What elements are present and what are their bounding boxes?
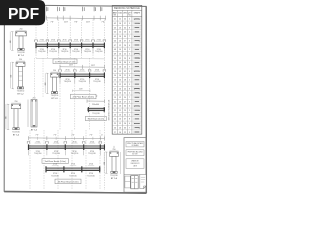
svg-text:16: 16 [119,132,121,134]
svg-text:T10@150: T10@150 [93,81,100,83]
beam A (1st floor): support dividers through label rows [35,48,37,53]
dimension tick [105,16,107,21]
beam caption box [55,179,81,184]
top dimension line [46,17,106,20]
svg-text:25: 25 [124,67,126,69]
section S5: outer dimension line [103,152,105,173]
svg-text:250: 250 [15,101,18,103]
svg-text:27: 27 [124,101,126,103]
title block: box 1 [126,142,144,147]
svg-text:3: 3 [129,132,130,134]
svg-text:06: 06 [114,40,116,42]
svg-text:8: 8 [129,58,130,60]
section S4a: bottom bars [13,128,19,130]
svg-text:12: 12 [119,123,121,125]
svg-text:11: 11 [114,62,116,64]
svg-text:7'5": 7'5" [53,135,57,137]
beam D support tick [99,166,101,172]
projection line (dashed, sections) [34,58,36,97]
svg-text:T10@150: T10@150 [52,153,59,155]
section S4a: corner bar marks [12,105,13,106]
title block: bottom-left cell [125,176,130,188]
svg-text:5: 5 [129,114,130,116]
grid line (dashed, upper) [58,20,60,59]
svg-text:8: 8 [129,27,130,29]
bending schedule: rows [112,20,142,22]
svg-text:19: 19 [114,97,116,99]
svg-text:16: 16 [119,40,121,42]
svg-text:26: 26 [114,127,116,129]
grid line (dashed, right edge full height) [103,20,105,191]
PDF badge [0,0,45,25]
svg-text:24: 24 [124,88,126,90]
svg-text:24: 24 [114,119,116,121]
section S1: flange [16,32,27,36]
section S4a: flange [11,104,21,109]
dimension sub-tick [92,137,94,140]
svg-text:22: 22 [124,132,126,134]
svg-text:36: 36 [124,62,126,64]
svg-text:BENDING SCHEDULE: BENDING SCHEDULE [108,99,110,120]
section S4a: stem/web [14,109,18,128]
svg-text:33: 33 [124,127,126,129]
section S2 stirrup striations [18,71,23,73]
svg-text:16: 16 [114,84,116,86]
svg-text:20: 20 [114,101,116,103]
svg-text:12: 12 [119,110,121,112]
svg-text:11'0": 11'0" [64,22,69,24]
svg-text:03: 03 [114,27,116,29]
beam B2 band [88,108,105,110]
dimension line for beam B2 [87,100,105,102]
section S3: outer dimension line [44,73,46,93]
section S3: stem/web [53,77,57,92]
page border: heavier right edge [145,6,147,193]
svg-text:16: 16 [119,53,121,55]
dimension sub-tick [37,137,39,140]
svg-text:T10@150: T10@150 [51,175,58,177]
svg-text:12: 12 [114,67,116,69]
svg-text:4th Floor Beam (5.5m): 4th Floor Beam (5.5m) [58,180,79,183]
svg-text:PDF: PDF [8,6,39,23]
svg-text:2nd Floor Beam (5.0m): 2nd Floor Beam (5.0m) [73,96,95,99]
svg-text:5: 5 [129,84,130,86]
svg-text:30: 30 [124,36,126,38]
svg-text:250x600: 250x600 [92,104,99,106]
dimension tick [99,16,101,21]
section S5: top dim bracket [110,150,119,152]
section S5: corner bar marks [110,153,111,154]
dimension tick [62,16,64,21]
svg-text:4: 4 [129,62,130,64]
svg-text:CHECKED BY: CHECKED BY [130,163,139,165]
section S5: side dimension line [105,152,107,173]
section S4a: outer dimension line [5,104,7,129]
title block: box 3 [126,159,144,169]
beam A (1st floor): support bracket marks [34,40,36,42]
svg-text:34: 34 [124,106,126,108]
bending schedule: title underline [112,9,142,11]
svg-text:14: 14 [114,75,116,77]
svg-text:7'5": 7'5" [71,135,75,137]
svg-text:16: 16 [119,36,121,38]
svg-text:BT 5-6: BT 5-6 [111,178,118,180]
small dim bracket above caption B [73,90,91,92]
svg-text:2: 2 [129,19,130,21]
section S4a: top dim bracket [11,102,21,104]
beam B (2nd floor): support ticks [59,73,61,79]
grid line (dashed, lower) [57,130,59,190]
svg-text:BT 5-5: BT 5-5 [31,130,38,132]
beam B2 caption box [86,116,107,120]
beam A (1st floor): support ticks [35,43,37,49]
section S1: corner bar marks [16,32,17,33]
svg-text:37: 37 [124,40,126,42]
svg-text:3: 3 [129,71,130,73]
grid line (dashed, mid) [59,58,61,130]
separator line under strip A texts [36,57,105,60]
svg-text:2: 2 [129,80,130,82]
dimension number (top, rotated) [62,7,64,11]
section S2: flange [16,62,25,66]
svg-text:07: 07 [114,45,116,47]
beam A (1st floor): top/bottom bar band [36,44,105,46]
svg-text:600: 600 [104,162,106,165]
section S1: top dim bracket [16,30,27,32]
section S2: corner bar marks [17,63,18,64]
beam C (3rd floor): top/bottom bar band [29,146,105,148]
section S2: stem/web [19,66,23,87]
svg-text:26: 26 [124,45,126,47]
section S3: top dim bracket [51,71,59,73]
svg-text:BENDING SCHEDULE: BENDING SCHEDULE [114,7,140,10]
svg-text:20: 20 [124,97,126,99]
section S1: side dimension line [11,32,13,51]
svg-text:T10@150: T10@150 [95,51,102,53]
svg-text:7: 7 [129,67,130,69]
svg-text:BT 5-1: BT 5-1 [18,55,25,57]
dimension tick [69,16,71,21]
svg-text:7: 7 [129,36,130,38]
svg-text:3: 3 [129,40,130,42]
svg-text:22: 22 [114,110,116,112]
grid line (dashed, lower) [85,130,87,190]
svg-text:23: 23 [114,114,116,116]
svg-text:2: 2 [129,110,130,112]
svg-text:7'6": 7'6" [50,22,54,24]
section S3: bottom bars [51,92,57,94]
svg-text:20: 20 [124,19,126,21]
svg-text:4: 4 [129,93,130,95]
beam D support tick [45,166,47,172]
svg-text:T10@150: T10@150 [38,51,45,53]
svg-text:1st Floor Beam (7.5m): 1st Floor Beam (7.5m) [55,60,76,63]
projection line (dashed, sections) [42,58,44,97]
svg-text:12: 12 [119,58,121,60]
svg-text:3rd Floor Beam (9.0m): 3rd Floor Beam (9.0m) [45,160,66,163]
svg-text:23: 23 [124,110,126,112]
svg-text:7: 7 [129,127,130,129]
section S4b: rectangular section [31,100,37,128]
dimension tick [57,16,59,21]
section S2: outer dimension line [10,62,12,88]
svg-text:29: 29 [124,58,126,60]
svg-text:25: 25 [114,123,116,125]
svg-text:12: 12 [119,71,121,73]
svg-text:8: 8 [129,119,130,121]
svg-text:15'0": 15'0" [91,65,96,67]
title block: box 2 [126,150,144,156]
grid line (dashed, mid) [74,58,76,130]
svg-text:16: 16 [119,101,121,103]
svg-text:PROPOSED BUILDING: PROPOSED BUILDING [128,151,143,153]
grid line (dashed, lower) [43,130,45,190]
svg-text:05: 05 [114,36,116,38]
svg-text:15'0": 15'0" [69,65,74,67]
svg-text:35: 35 [124,84,126,86]
svg-text:8: 8 [129,88,130,90]
svg-text:6: 6 [129,75,130,77]
section S2: side dimension line [12,62,14,89]
beam B (2nd floor): top/bottom bar band [60,74,105,76]
svg-text:16: 16 [119,127,121,129]
beam B (2nd floor): support dividers through label rows [59,78,61,83]
section S1: stem/web [19,36,23,49]
bending schedule: column lines [117,10,119,134]
bending schedule: outer box [112,5,142,134]
svg-text:250: 250 [19,59,22,61]
svg-text:7: 7 [129,97,130,99]
grid line (dashed, upper) [46,20,48,59]
svg-text:30: 30 [124,114,126,116]
svg-text:T10@150: T10@150 [17,91,24,93]
svg-text:12: 12 [119,84,121,86]
grid line (dashed, upper) [69,20,71,59]
dimension tick [93,16,95,21]
beam caption box [71,94,97,99]
svg-text:16: 16 [119,93,121,95]
beam C (3rd floor): support bracket marks [26,141,28,143]
svg-text:250: 250 [113,149,116,151]
section S3: side dimension line [46,73,48,94]
dimension number (top, rotated) [93,7,95,11]
svg-text:7'5": 7'5" [35,135,39,137]
section S5 right dim line [120,152,122,174]
section S3: corner bar marks [51,74,52,75]
dimension number (top, rotated) [57,7,59,11]
svg-text:10: 10 [114,58,116,60]
svg-text:27: 27 [114,132,116,134]
svg-text:T10@150: T10@150 [78,81,85,83]
svg-text:16: 16 [119,114,121,116]
svg-text:15: 15 [114,80,116,82]
beam D band [46,168,100,170]
svg-text:2: 2 [129,49,130,51]
svg-text:T10@150: T10@150 [34,153,41,155]
beam caption box [53,59,77,64]
beam C (3rd floor): support dividers through label rows [28,150,30,155]
svg-text:28: 28 [124,80,126,82]
section S1: outer dimension line [9,32,11,50]
page border frame [4,5,146,193]
svg-text:Roof Beam (2.0m): Roof Beam (2.0m) [88,119,105,121]
section S2: bottom bars [17,87,23,89]
svg-text:T10@150: T10@150 [87,175,94,177]
svg-text:T10@150: T10@150 [49,51,56,53]
grid line (dashed, mid) [89,58,91,130]
svg-text:250: 250 [33,97,36,99]
svg-text:5: 5 [129,53,130,55]
svg-text:16: 16 [119,67,121,69]
section S2: top dim bracket [16,60,25,62]
dimension number (top, rotated) [82,7,84,11]
grid line (dashed, upper) [92,20,94,59]
svg-text:01: 01 [114,19,116,21]
svg-text:02: 02 [114,23,116,25]
svg-text:12: 12 [119,45,121,47]
svg-text:T10@150: T10@150 [64,81,71,83]
svg-text:16: 16 [119,27,121,29]
svg-text:37: 37 [124,119,126,121]
svg-text:27: 27 [124,23,126,25]
svg-text:600: 600 [10,40,12,43]
svg-text:5: 5 [129,23,130,25]
svg-text:600: 600 [10,75,12,78]
svg-text:16: 16 [119,88,121,90]
svg-text:31: 31 [124,93,126,95]
svg-text:18: 18 [114,93,116,95]
svg-text:3: 3 [129,101,130,103]
svg-text:12: 12 [119,19,121,21]
dimension tick [45,16,47,21]
svg-text:16: 16 [119,80,121,82]
svg-text:6: 6 [129,45,130,47]
dimension sub-tick [55,137,57,140]
svg-text:T10@150: T10@150 [61,51,68,53]
svg-text:BT 5-2: BT 5-2 [17,94,24,96]
svg-text:9'6": 9'6" [74,22,78,24]
svg-text:250: 250 [20,29,23,31]
svg-text:T10@150: T10@150 [72,51,79,53]
dimension number (top, rotated) [99,7,101,11]
svg-text:16: 16 [119,119,121,121]
section S5 top tick [113,146,115,148]
svg-text:34: 34 [124,27,126,29]
title block: bottom-right cell with page-curl icon [140,175,146,189]
dimension number (top, rotated) [45,7,47,11]
strip C right end tick [103,144,105,150]
section S4b dim [27,100,29,128]
svg-text:13: 13 [114,71,116,73]
svg-text:250: 250 [53,70,56,72]
section S3: flange [51,73,59,77]
section S5: bottom bars [111,171,117,173]
beam C (3rd floor): support ticks [28,144,30,150]
svg-text:11'0": 11'0" [86,22,91,24]
dimension line for beam C [29,137,105,140]
svg-text:BT 5-4: BT 5-4 [13,134,20,136]
svg-text:4: 4 [129,123,130,125]
svg-text:600: 600 [45,83,47,86]
dimension tick [82,16,84,21]
svg-text:21: 21 [124,75,126,77]
beam B (2nd floor): support bracket marks [58,70,60,72]
section S4a: side dimension line [7,104,9,130]
svg-text:SHAPE: SHAPE [134,11,141,14]
grid line (dashed, upper) [35,20,37,59]
svg-text:12: 12 [119,97,121,99]
page border: heavier bottom edge [4,192,146,194]
svg-text:33: 33 [124,49,126,51]
svg-text:T10@150: T10@150 [71,153,78,155]
svg-text:T10@150: T10@150 [84,51,91,53]
svg-text:7'5": 7'5" [89,135,93,137]
section S5: stem/web [112,156,116,171]
svg-text:16: 16 [119,75,121,77]
section S5: flange [110,152,119,156]
svg-text:16: 16 [119,62,121,64]
svg-text:16: 16 [119,106,121,108]
title block: bottom divider [124,174,146,176]
beam D support tick [81,166,83,172]
grid line (dashed, upper) [81,20,83,59]
svg-text:16: 16 [119,49,121,51]
svg-text:T10@150: T10@150 [88,153,95,155]
svg-text:22: 22 [124,53,126,55]
grid line (dashed, lower) [99,130,101,190]
svg-text:16: 16 [119,23,121,25]
grid line (dashed, lower) [29,130,31,190]
svg-text:600: 600 [6,116,8,119]
svg-text:17: 17 [114,88,116,90]
svg-text:08: 08 [114,49,116,51]
svg-text:T10@150: T10@150 [17,52,24,54]
svg-text:23: 23 [124,32,126,34]
section S1: bottom bars [18,48,24,50]
svg-text:BT 5-3: BT 5-3 [51,98,58,100]
beam caption box [42,159,69,164]
beam D support tick [63,166,65,172]
title block: outer box [124,138,146,193]
title block: bottom-middle cell [131,176,138,189]
svg-text:11'6": 11'6" [79,88,83,90]
svg-text:04: 04 [114,32,116,34]
svg-text:T10@150: T10@150 [92,113,99,115]
svg-text:09: 09 [114,53,116,55]
svg-text:T10@150: T10@150 [69,175,76,177]
svg-text:4: 4 [129,32,130,34]
svg-text:32: 32 [124,71,126,73]
svg-text:T10@150: T10@150 [12,131,19,133]
svg-text:6: 6 [129,106,130,108]
svg-text:26: 26 [124,123,126,125]
svg-text:T10@150: T10@150 [110,175,117,177]
svg-text:12: 12 [119,32,121,34]
dimension sub-tick [74,137,76,140]
svg-text:21: 21 [114,106,116,108]
dimension line for beam B [60,66,105,68]
svg-text:T10@150: T10@150 [51,95,58,97]
grid line (dashed, lower) [71,130,73,190]
